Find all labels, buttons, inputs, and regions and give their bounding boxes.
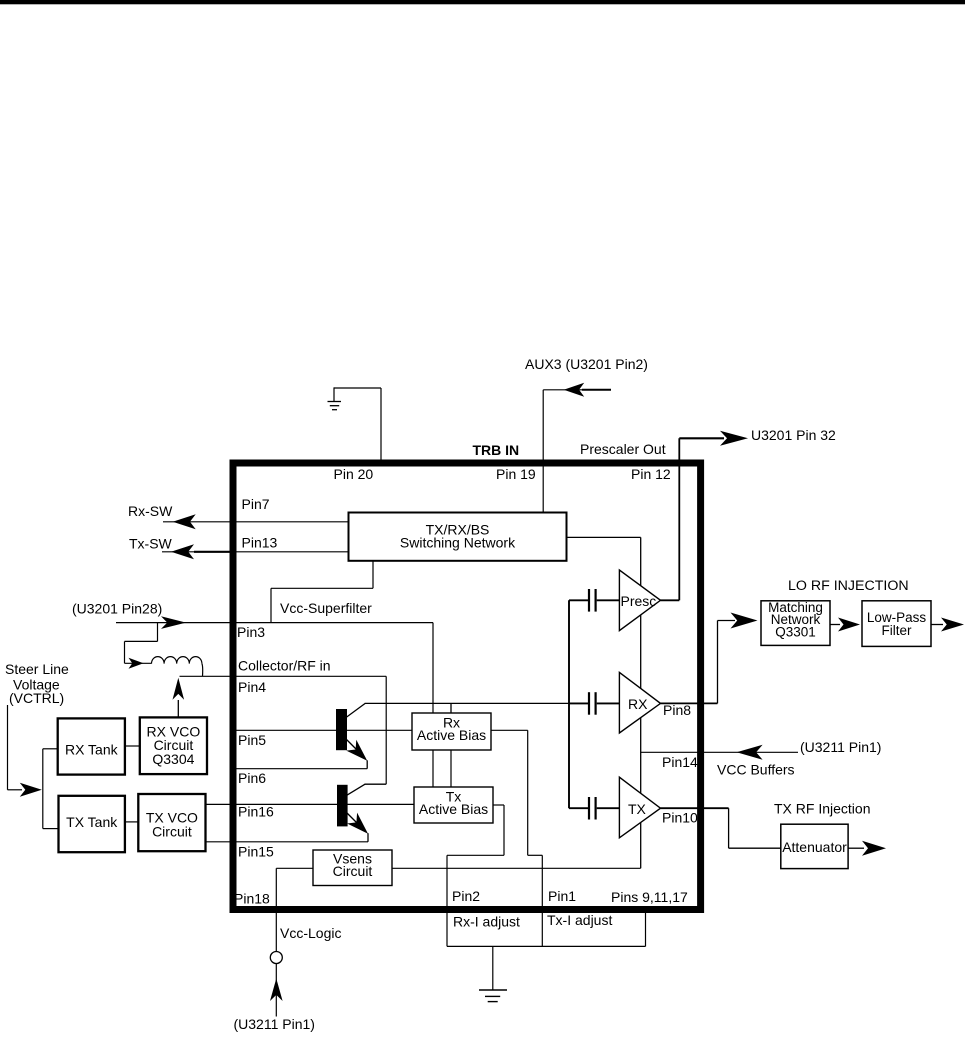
svg-text:Attenuator: Attenuator bbox=[782, 839, 847, 855]
svg-text:(U3211 Pin1): (U3211 Pin1) bbox=[234, 1016, 315, 1032]
svg-text:Collector/RF in: Collector/RF in bbox=[238, 658, 331, 674]
amplifier Presc bbox=[619, 570, 660, 631]
svg-text:Pin13: Pin13 bbox=[242, 535, 278, 551]
svg-text:Pin4: Pin4 bbox=[238, 679, 266, 695]
svg-text:Q3301: Q3301 bbox=[775, 625, 816, 640]
wire vertical bus from switching network down bbox=[640, 537, 642, 868]
wire Pin16 base line from TX VCO to Tx Active Bias bbox=[206, 803, 415, 805]
block Attenuator bbox=[781, 824, 848, 868]
svg-text:Pin10: Pin10 bbox=[662, 810, 698, 826]
wire RX collector diagonal bbox=[346, 703, 365, 717]
transistor Q RX (bar) bbox=[336, 709, 347, 750]
capacitor C tx bbox=[569, 797, 619, 820]
svg-text:Steer Line: Steer Line bbox=[5, 661, 69, 677]
svg-text:Prescaler Out: Prescaler Out bbox=[580, 441, 666, 457]
svg-text:Presc: Presc bbox=[621, 593, 657, 609]
wire switching network output to prescaler bus bbox=[567, 536, 641, 538]
wire steer line with arrow bbox=[8, 705, 42, 797]
svg-text:Switching Network: Switching Network bbox=[400, 535, 516, 551]
wire step from Pin3 line down to inductor bbox=[125, 623, 158, 664]
svg-text:Pin3: Pin3 bbox=[237, 624, 265, 640]
svg-text:Pins 9,11,17: Pins 9,11,17 bbox=[611, 889, 688, 905]
svg-text:(VCTRL): (VCTRL) bbox=[9, 690, 64, 706]
svg-text:Pin1: Pin1 bbox=[548, 888, 576, 904]
svg-text:Pin 20: Pin 20 bbox=[334, 466, 374, 482]
svg-text:AUX3 (U3201 Pin2): AUX3 (U3201 Pin2) bbox=[525, 356, 648, 372]
svg-text:Pin14: Pin14 bbox=[662, 754, 698, 770]
wire Rx-SW (Pin7) with arrow bbox=[163, 514, 349, 529]
wire matching network to low-pass filter with arrow bbox=[830, 618, 860, 632]
svg-text:TX Tank: TX Tank bbox=[66, 814, 118, 830]
wire TX output to attenuator bbox=[661, 808, 781, 848]
wire AUX3 input with arrow bbox=[543, 383, 611, 397]
block TX Tank bbox=[59, 796, 125, 852]
wire Rx Active Bias right to Pin1 column bbox=[491, 730, 542, 855]
svg-text:Circuit: Circuit bbox=[152, 824, 192, 840]
svg-text:LO RF INJECTION: LO RF INJECTION bbox=[788, 578, 909, 594]
svg-text:Circuit: Circuit bbox=[333, 863, 373, 879]
svg-text:RX Tank: RX Tank bbox=[65, 742, 119, 758]
svg-text:Pin7: Pin7 bbox=[242, 496, 270, 512]
wire Pin18 to Vcc-Logic circle bbox=[275, 868, 277, 951]
wire TX Tank to TX VCO bbox=[125, 821, 138, 823]
transistor Q TX (bar) bbox=[337, 785, 348, 827]
svg-text:Pin15: Pin15 bbox=[238, 844, 274, 860]
wire VCC Buffers input (U3211 Pin1) with arrow bbox=[641, 745, 798, 760]
svg-text:VCC Buffers: VCC Buffers bbox=[717, 762, 795, 778]
wire Prescaler Out to U3201 Pin 32 with arrow bbox=[679, 431, 748, 601]
wire Pin1 column bbox=[541, 855, 543, 946]
svg-text:Pin8: Pin8 bbox=[663, 702, 691, 718]
wire Pin2 column bbox=[446, 855, 448, 946]
wire coupling bus vertical bbox=[568, 600, 570, 808]
block Rx Active Bias bbox=[412, 713, 491, 750]
wire RX emitter diagonal with arrow bbox=[346, 740, 367, 769]
amplifier RX buffer bbox=[619, 672, 660, 733]
wire Pin6 emitter line bbox=[233, 768, 367, 770]
wire attenuator output with arrow bbox=[848, 841, 886, 856]
wire Pin4 down to TX transistor collector bbox=[385, 676, 387, 784]
svg-text:Pin16: Pin16 bbox=[238, 804, 274, 820]
block RX Tank bbox=[58, 718, 125, 774]
svg-text:Vcc-Superfilter: Vcc-Superfilter bbox=[280, 600, 372, 616]
wire Vsens right to bus bbox=[392, 867, 641, 869]
wire TX collector diagonal bbox=[347, 784, 387, 795]
wire Rx bias to Tx bias (left) bbox=[432, 750, 434, 787]
svg-text:Pin18: Pin18 bbox=[234, 891, 270, 907]
wire ground to Pin 20 bbox=[380, 388, 382, 463]
wire RX Tank to RX VCO bbox=[125, 745, 140, 747]
capacitor C presc bbox=[569, 589, 619, 612]
svg-text:(U3201 Pin28): (U3201 Pin28) bbox=[72, 601, 162, 617]
svg-text:Filter: Filter bbox=[882, 623, 913, 638]
svg-text:Rx-SW: Rx-SW bbox=[128, 503, 173, 519]
ground (Pin 20) bbox=[328, 387, 382, 409]
svg-text:TX RF Injection: TX RF Injection bbox=[774, 801, 870, 817]
wire TX emitter diagonal with arrow bbox=[347, 813, 368, 842]
wire Pin4 collector line bbox=[180, 675, 387, 677]
block Vsens Circuit bbox=[313, 850, 392, 886]
svg-text:U3201 Pin 32: U3201 Pin 32 bbox=[751, 427, 836, 443]
wire Tx Active Bias right to Pin2 column bbox=[447, 805, 504, 855]
wire AUX3 to Pin 19 / TRB IN bbox=[542, 390, 544, 513]
wire into inductor with arrow bbox=[125, 658, 152, 669]
svg-text:Active Bias: Active Bias bbox=[417, 727, 486, 743]
svg-text:Vcc-Logic: Vcc-Logic bbox=[280, 925, 341, 941]
wire Presc output bbox=[661, 599, 680, 601]
svg-text:TX: TX bbox=[628, 801, 647, 817]
block Matching Network Q3301 bbox=[761, 600, 830, 645]
svg-text:Rx-I adjust: Rx-I adjust bbox=[453, 914, 520, 930]
svg-text:Tx-SW: Tx-SW bbox=[129, 536, 173, 552]
wire right edge of Tx-I adjust box bbox=[645, 913, 647, 946]
svg-text:Pin6: Pin6 bbox=[238, 770, 266, 786]
wire inductor drop to collector line bbox=[201, 664, 204, 677]
block Low-Pass Filter bbox=[862, 601, 931, 647]
svg-text:Active Bias: Active Bias bbox=[419, 801, 488, 817]
inductor L (collector feed) bbox=[152, 657, 202, 664]
wire Pin15 emitter line from TX VCO bbox=[206, 841, 369, 843]
wire VCTRL vertical to both tanks bbox=[43, 749, 59, 829]
wire (U3201 Pin28) to Pin3 with arrow bbox=[116, 616, 433, 629]
wire Tx-SW (Pin13) with arrow bbox=[162, 544, 349, 559]
block RX VCO Circuit Q3304 bbox=[140, 717, 207, 774]
top rule bbox=[0, 0, 965, 4]
wire RX output to matching network bbox=[661, 613, 758, 704]
svg-text:(U3211 Pin1): (U3211 Pin1) bbox=[800, 739, 881, 755]
wire RX VCO up arrow to collector line bbox=[173, 678, 185, 718]
node Steer Line Voltage (VCTRL) label bbox=[5, 661, 69, 706]
wire bottom of adjust boxes bbox=[447, 945, 646, 947]
svg-text:Tx-I adjust: Tx-I adjust bbox=[547, 912, 612, 928]
wire RX collector line to coupling bus bbox=[365, 702, 569, 704]
capacitor C rx bbox=[569, 692, 619, 715]
terminal circle Vcc-Logic bbox=[270, 952, 282, 964]
wire Vcc-Superfilter from switching network to Pin3 bbox=[271, 561, 373, 623]
svg-text:TRB IN: TRB IN bbox=[473, 442, 520, 458]
block TX/RX/BS Switching Network bbox=[349, 513, 567, 561]
wire from (U3211 Pin1) up with arrow bbox=[270, 964, 283, 1017]
amplifier TX buffer bbox=[619, 777, 660, 838]
wire Pin5 base line to Rx Active Bias bbox=[233, 729, 412, 731]
svg-text:Pin5: Pin5 bbox=[238, 732, 266, 748]
svg-text:RX: RX bbox=[628, 696, 648, 712]
wire Vsens left to Pin18 column bbox=[276, 867, 313, 869]
ground (bottom, Rx-I adjust) bbox=[479, 946, 507, 1001]
svg-text:Pin 19: Pin 19 bbox=[496, 466, 536, 482]
svg-text:Q3304: Q3304 bbox=[152, 751, 194, 767]
wire Rx bias to Tx bias (right) bbox=[450, 750, 452, 787]
block TX VCO Circuit bbox=[138, 794, 205, 851]
svg-text:Pin2: Pin2 bbox=[452, 888, 480, 904]
svg-text:Pin 12: Pin 12 bbox=[631, 466, 671, 482]
block Tx Active Bias bbox=[414, 787, 493, 823]
wire Pin3 down to Rx Active Bias bbox=[432, 623, 434, 713]
IC block outer box bbox=[233, 463, 701, 910]
wire drop to Rx Active Bias top bbox=[450, 703, 452, 713]
wire low-pass filter output with arrow bbox=[931, 618, 964, 632]
